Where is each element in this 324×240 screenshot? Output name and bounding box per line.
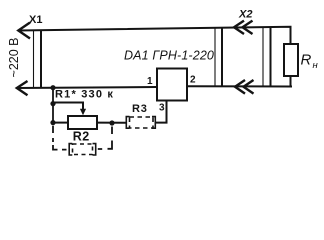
connector X2 pair A pin 2	[221, 28, 223, 87]
wire Rn bottom lead	[290, 76, 292, 87]
svg-text:R3: R3	[132, 103, 148, 115]
resistor R3 dashed body	[130, 117, 154, 128]
svg-text:1: 1	[147, 76, 153, 87]
connector X2 arrow bottom	[235, 80, 254, 94]
svg-text:~220 В: ~220 В	[7, 38, 21, 78]
junction node wiper elbow	[50, 101, 55, 106]
capacitor dashed option left lead	[53, 126, 67, 150]
wire R3 right lead to pin 3	[155, 101, 166, 123]
svg-text:н: н	[313, 60, 319, 71]
svg-text:R: R	[301, 52, 312, 69]
connector X1 plug arrow bottom	[17, 81, 28, 95]
svg-text:R1* 330 к: R1* 330 к	[55, 89, 114, 101]
R2 wiper arrowhead	[80, 109, 86, 115]
resistor R3 right bracket	[152, 117, 155, 129]
resistor Rn load body	[284, 44, 298, 76]
IC DA1 box	[157, 69, 187, 101]
resistor R2 body	[68, 116, 97, 129]
svg-text:X1: X1	[29, 14, 42, 26]
wire R2 right lead	[97, 122, 126, 124]
connector X1 pin line 1	[33, 31, 35, 87]
wire bottom mains right	[187, 85, 292, 87]
svg-text:2: 2	[190, 75, 196, 86]
connector X2 arrow top	[234, 21, 253, 34]
junction node R2 left	[50, 120, 55, 125]
wire wiper elbow	[53, 103, 83, 113]
capacitor dashed option right bracket	[93, 144, 96, 155]
connector X1 plug arrow top	[18, 23, 30, 39]
connector X2 pair B pin 2	[270, 27, 272, 87]
connector X2 pair B pin 1	[262, 27, 264, 87]
svg-text:DA1 ГРН-1-220: DA1 ГРН-1-220	[124, 49, 214, 63]
resistor R3 left bracket	[126, 117, 129, 129]
capacitor dashed option left bracket	[69, 144, 72, 155]
connector X2 pair A pin 1	[214, 28, 216, 87]
capacitor dashed option body	[73, 144, 93, 155]
junction node R2 right	[109, 120, 114, 125]
junction node on bottom wire	[50, 85, 55, 90]
wire bottom mains left	[17, 87, 158, 88]
connector X1 pin line 2	[40, 31, 42, 87]
capacitor dashed option right lead	[98, 127, 112, 150]
wire R1 left vertical	[52, 88, 54, 123]
svg-text:X2: X2	[238, 9, 252, 21]
wire top mains	[18, 27, 291, 44]
wire R2 left lead	[53, 122, 68, 124]
svg-text:R2: R2	[73, 130, 90, 144]
svg-text:3: 3	[159, 103, 165, 114]
